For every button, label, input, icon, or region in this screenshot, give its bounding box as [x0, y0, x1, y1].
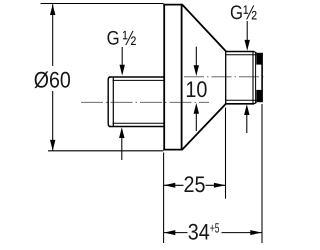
svg-text:G: G — [230, 2, 243, 24]
leader G1/2 left down arrow — [121, 47, 123, 66]
extension line top (flange top) — [41, 3, 164, 5]
outlet end face — [261, 53, 263, 102]
dimension 10 arrow lower — [195, 113, 197, 132]
leader G1/2 left up arrow — [121, 137, 123, 160]
svg-text:+5: +5 — [210, 221, 220, 236]
outlet thread band top — [256, 53, 262, 65]
dimension 34+5 arrow right — [250, 230, 261, 235]
extension line vertical middle (cone end) — [225, 108, 227, 199]
extension line bottom (flange bottom) — [48, 150, 163, 152]
svg-text:½: ½ — [123, 27, 137, 50]
outlet stub G1/2 right — [226, 52, 262, 104]
dimension 25 arrow left — [164, 183, 176, 188]
svg-text:10: 10 — [185, 77, 207, 102]
outlet thread band bottom — [256, 90, 262, 102]
dimension 34+5 line — [164, 232, 262, 234]
inlet stub G1/2 left — [108, 77, 164, 127]
svg-text:Ø60: Ø60 — [34, 68, 71, 93]
dimension 25 arrow right — [214, 183, 226, 188]
svg-text:25: 25 — [184, 172, 206, 197]
extension line vertical left (wall face) — [163, 153, 165, 244]
dimension 10 arrow upper — [195, 47, 197, 67]
centerline outlet axis — [184, 76, 267, 78]
svg-text:34: 34 — [188, 220, 210, 245]
dimension 34+5 arrow left — [164, 230, 176, 235]
flange disc — [163, 4, 182, 151]
dimension 25 line — [164, 184, 225, 186]
cone body — [182, 5, 226, 150]
leader G1/2 right up arrow — [246, 114, 248, 133]
dimension Ø60 arrow down — [50, 140, 55, 151]
svg-text:½: ½ — [243, 1, 257, 24]
leader G1/2 right down arrow — [246, 21, 248, 41]
dimension Ø60 arrow up — [50, 4, 55, 15]
dimension Ø60 line — [52, 4, 54, 150]
svg-text:G: G — [107, 28, 120, 50]
centerline inlet axis — [81, 101, 209, 103]
extension line vertical right (thread end) — [261, 104, 263, 243]
